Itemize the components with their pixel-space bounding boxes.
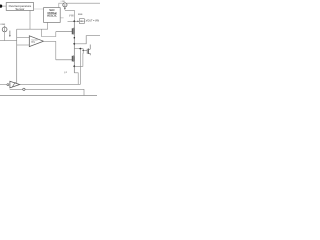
svg-text:Q 2: Q 2 bbox=[64, 72, 67, 74]
svg-text:Amp: Amp bbox=[31, 41, 35, 44]
svg-text:I REF: I REF bbox=[0, 24, 6, 26]
svg-text:Sensor: Sensor bbox=[15, 7, 24, 11]
svg-text:MODE LOGIC: MODE LOGIC bbox=[47, 15, 57, 17]
svg-text:VOUT = VIN: VOUT = VIN bbox=[86, 19, 99, 22]
svg-text:V IN: V IN bbox=[69, 16, 74, 18]
